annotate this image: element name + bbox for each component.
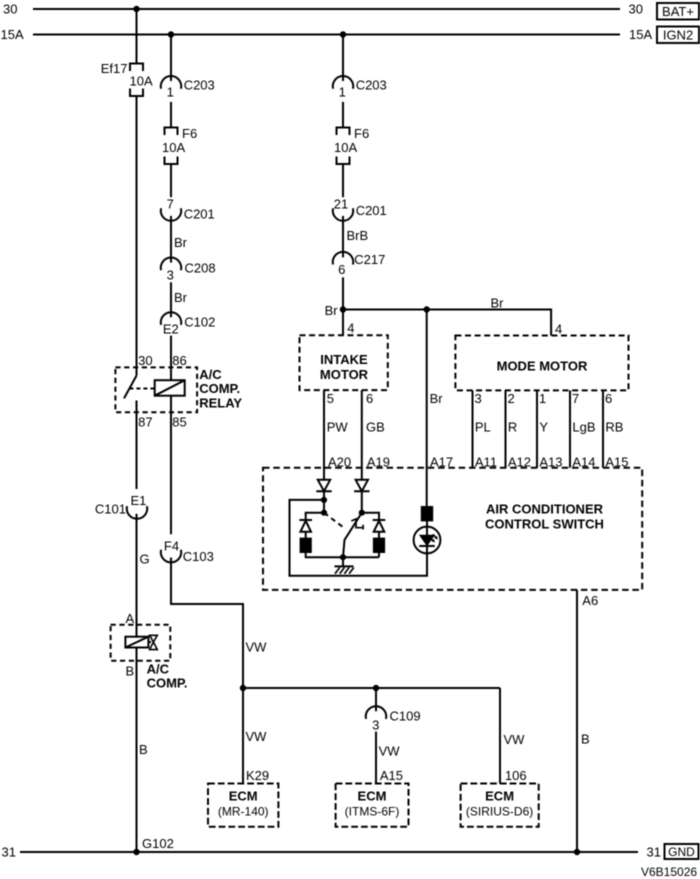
label INTAKE MOTOR pin 4: [347, 321, 354, 336]
svg-text:86: 86: [172, 353, 186, 368]
wire C217 to Br splice node: [342, 277, 344, 309]
wire D2 to switch node: [361, 491, 363, 513]
svg-text:B: B: [581, 732, 590, 747]
svg-text:A20: A20: [328, 455, 351, 470]
label switch pin A20: [328, 455, 351, 470]
wire node to left rail and LED return rail: [290, 500, 428, 576]
wire C101 to A/C comp pin A, colour G: [136, 514, 138, 637]
svg-text:C203: C203: [184, 78, 215, 93]
svg-text:30: 30: [629, 2, 643, 17]
label connector C102: [184, 315, 215, 330]
wire Br splice to A17 branch: [426, 310, 428, 508]
label F6 right rating 10A: [334, 140, 357, 155]
svg-text:30: 30: [138, 353, 152, 368]
switch arm dashed alternate position: [324, 513, 346, 529]
connector C201 pin 21: [333, 208, 353, 221]
svg-text:F4: F4: [164, 539, 179, 554]
svg-text:RELAY: RELAY: [199, 396, 242, 411]
svg-text:CONTROL SWITCH: CONTROL SWITCH: [485, 517, 604, 532]
svg-text:F6: F6: [182, 126, 197, 141]
svg-text:10A: 10A: [334, 140, 357, 155]
junction switch node right: [359, 510, 365, 516]
label wire colour LgB: [572, 420, 595, 435]
svg-text:3: 3: [372, 717, 379, 732]
wire Br splice to INTAKE MOTOR pin 4: [342, 310, 344, 336]
svg-text:21: 21: [334, 197, 348, 212]
label INTAKE MOTOR title: [320, 352, 369, 382]
wire left branch to diode D3: [306, 513, 324, 520]
label switch pin A15: [605, 455, 628, 470]
label MODE MOTOR title: [497, 359, 588, 374]
svg-text:3: 3: [167, 268, 174, 283]
label intake pin 6: [366, 391, 373, 406]
wire C203 to fuse F6 left: [170, 102, 172, 128]
label connector C103: [183, 549, 214, 564]
label switch pin A19: [367, 455, 390, 470]
junction bus30 / Ef17 column: [133, 6, 139, 12]
label C203 right pin 1: [339, 84, 346, 99]
wire INTAKE MOTOR pin 6 to A19 diode: [361, 390, 363, 480]
svg-text:31: 31: [2, 845, 16, 860]
junction Br splice at A17 column: [424, 306, 430, 312]
ECM (SIRIUS-D6) box: [461, 784, 539, 827]
label C201 pin 21: [334, 197, 348, 212]
ground symbol inside switch: [335, 557, 354, 574]
wire C109 to ECM (ITMS-6F) pin A15: [375, 732, 377, 784]
label wire colour VW (C109 drop): [379, 743, 401, 758]
connector C203 pin 1 (left column): [161, 76, 181, 89]
svg-text:Br: Br: [430, 391, 444, 406]
terminal box BAT+: [657, 3, 699, 20]
label wire colour Br (C201-C208): [174, 235, 188, 250]
label fuse Ef17: [101, 61, 128, 76]
label wire colour GB: [366, 420, 385, 435]
svg-text:COMP.: COMP.: [147, 676, 188, 691]
label wire colour PW: [327, 420, 349, 435]
svg-text:Ef17: Ef17: [101, 61, 128, 76]
svg-text:ECM: ECM: [485, 789, 514, 804]
svg-text:BAT+: BAT+: [662, 4, 694, 19]
label A/C COMP. RELAY title: [199, 367, 242, 411]
label C208 pin 3: [167, 268, 174, 283]
svg-text:C201: C201: [184, 206, 215, 221]
svg-text:AIR CONDITIONER: AIR CONDITIONER: [486, 502, 604, 517]
svg-text:106: 106: [505, 768, 527, 783]
label compressor pin B: [126, 664, 135, 679]
wire C103 down and right to ECM feed node, colour VW: [171, 558, 243, 689]
svg-text:C109: C109: [390, 709, 421, 724]
wire INTAKE MOTOR pin 5 to A20 diode: [323, 390, 325, 480]
svg-text:A13: A13: [539, 455, 562, 470]
label wire colour RB: [605, 420, 623, 435]
connector C208 pin 3: [161, 258, 181, 271]
wire MODE MOTOR pin 2 to A12: [505, 390, 507, 467]
fuse Ef17 10A: [130, 64, 143, 97]
svg-text:Br: Br: [174, 290, 188, 305]
ECM (ITMS-6F) box: [336, 784, 409, 827]
svg-text:3: 3: [475, 391, 482, 406]
svg-text:GB: GB: [366, 420, 385, 435]
label net 15A right: [629, 27, 652, 42]
label fuse F6 right: [354, 126, 369, 141]
svg-text:E1: E1: [130, 493, 146, 508]
connector C217 pin 6: [333, 252, 353, 265]
connector C101 pin E1: [127, 506, 147, 519]
label net 30 left: [3, 2, 17, 17]
svg-text:C101: C101: [95, 502, 126, 517]
label relay pin 85: [172, 415, 186, 430]
label Ef17 rating 10A: [130, 74, 153, 89]
wire feed to connector C109, colour VW: [375, 688, 377, 711]
AIR CONDITIONER CONTROL SWITCH box: [263, 468, 642, 590]
wire R2 to ground rail: [378, 552, 380, 557]
A/C COMP clutch coil: [125, 637, 148, 648]
wire MODE MOTOR pin 6 to A15: [602, 390, 604, 467]
wire C102 to relay coil pin 86: [170, 336, 172, 381]
label compressor pin A: [126, 611, 135, 626]
svg-text:A14: A14: [572, 455, 595, 470]
svg-text:COMP.: COMP.: [199, 381, 240, 396]
label BAT+: [662, 4, 694, 19]
label F6 left rating 10A: [162, 140, 185, 155]
label mode pin 7: [572, 391, 579, 406]
label C103 pin F4: [164, 539, 179, 554]
svg-text:2: 2: [508, 391, 515, 406]
label wire colour VW (K29 drop): [246, 729, 268, 744]
connector C103 pin F4: [161, 550, 181, 563]
svg-text:15A: 15A: [1, 27, 24, 42]
wire switch pin A6 to ground bus, colour B: [576, 590, 578, 852]
label net 30 right: [629, 2, 643, 17]
svg-text:RB: RB: [605, 420, 623, 435]
label C217 pin 6: [338, 262, 345, 277]
label net 31 left: [2, 845, 16, 860]
label ECM pin K29: [246, 768, 269, 783]
svg-text:Y: Y: [539, 420, 548, 435]
junction ground bus / compressor return: [133, 849, 139, 855]
label switch pin A17: [430, 455, 453, 470]
svg-text:VW: VW: [246, 640, 268, 655]
fuse F6 10A (right): [337, 128, 350, 165]
svg-text:A19: A19: [367, 455, 390, 470]
wire relay pin 87 to connector C101: [136, 401, 138, 490]
svg-text:A17: A17: [430, 455, 453, 470]
connector C201 pin 7: [161, 208, 181, 221]
svg-text:87: 87: [138, 415, 152, 430]
label ECM (ITMS-6F): [345, 789, 400, 819]
wire feed to ECM (SIRIUS-D6) pin 106, colour VW: [499, 688, 501, 784]
wire R1 to ground rail: [306, 552, 379, 557]
label MODE MOTOR pin 4: [555, 322, 562, 337]
junction Br splice at intake column: [340, 306, 346, 312]
svg-text:BrB: BrB: [347, 228, 369, 243]
svg-text:INTAKE: INTAKE: [320, 352, 368, 367]
svg-text:A/C: A/C: [199, 367, 222, 382]
label C201 pin 7: [167, 197, 174, 212]
label switch pin A14: [572, 455, 595, 470]
switch detent mark: [351, 519, 363, 530]
label relay pin 30: [138, 353, 152, 368]
resistor R2: [374, 539, 384, 552]
connector C109 pin 3: [366, 706, 386, 719]
wire bus15A down to connector C203 right: [342, 35, 344, 82]
svg-text:C201: C201: [356, 203, 387, 218]
svg-text:7: 7: [572, 391, 579, 406]
svg-text:A11: A11: [475, 455, 497, 470]
svg-text:MOTOR: MOTOR: [320, 367, 369, 382]
svg-text:C217: C217: [354, 252, 385, 267]
terminal box GND: [665, 844, 699, 859]
svg-text:10A: 10A: [162, 140, 185, 155]
wire bus net 30: [33, 8, 620, 10]
label connector C203 right: [356, 78, 387, 93]
diode D3: [299, 520, 312, 532]
wire ECM feed line: [243, 687, 500, 689]
svg-text:MODE MOTOR: MODE MOTOR: [497, 359, 588, 374]
svg-text:15A: 15A: [629, 27, 652, 42]
svg-text:B: B: [139, 742, 148, 757]
svg-text:B: B: [126, 664, 135, 679]
junction bus15A / C203 right column: [340, 31, 346, 37]
svg-text:ECM: ECM: [229, 789, 258, 804]
svg-text:IGN2: IGN2: [663, 27, 693, 42]
svg-text:V6B15026: V6B15026: [641, 865, 697, 879]
label connector C217: [354, 252, 385, 267]
svg-text:6: 6: [605, 391, 612, 406]
label wire colour BrB: [347, 228, 369, 243]
relay actuating link (dashed): [129, 388, 154, 390]
svg-text:4: 4: [555, 322, 562, 337]
label C101 pin E1: [130, 493, 146, 508]
label wire colour VW (106 drop): [504, 732, 526, 747]
wire C208 to C102, colour Br: [170, 282, 172, 317]
svg-text:Br: Br: [325, 303, 339, 318]
label ECM (SIRIUS-D6): [466, 789, 533, 819]
label net 31 right: [647, 845, 661, 860]
junction node above switch (left rail tap): [321, 497, 327, 503]
wire MODE MOTOR pin 1 to A13: [536, 390, 538, 467]
label mode pin 6: [605, 391, 612, 406]
label ECM pin 106: [505, 768, 527, 783]
label AIR CONDITIONER CONTROL SWITCH title: [485, 502, 604, 532]
relay switch contact arm (pin 30 to 87): [124, 376, 137, 399]
label connector C101: [95, 502, 126, 517]
label switch pin A11: [475, 455, 497, 470]
resistor R3 on A17 branch: [422, 507, 432, 520]
label mode pin 3: [475, 391, 482, 406]
label intake pin 5: [327, 391, 334, 406]
label net 15A left: [1, 27, 24, 42]
diode D2 on A19 input: [354, 480, 369, 491]
svg-text:F6: F6: [354, 126, 369, 141]
LED indicator lamp: [414, 527, 441, 554]
label wire colour B (compressor return): [139, 742, 148, 757]
label C109 pin 3: [372, 717, 379, 732]
svg-text:Br: Br: [491, 296, 505, 311]
label ECM (MR-140): [218, 789, 269, 819]
svg-text:30: 30: [3, 2, 17, 17]
connector C203 pin 1 (right column): [333, 76, 353, 89]
svg-text:VW: VW: [504, 732, 526, 747]
label relay pin 86: [172, 353, 186, 368]
label ground G102: [142, 836, 174, 851]
label wire colour G: [140, 552, 150, 567]
svg-text:G102: G102: [142, 836, 174, 851]
svg-text:A15: A15: [605, 455, 628, 470]
svg-text:LgB: LgB: [572, 420, 595, 435]
wire Br splice to MODE MOTOR pin 4: [343, 310, 551, 336]
label IGN2: [663, 27, 693, 42]
A/C COMP clutch symbol: [148, 635, 157, 649]
label switch pin A12: [508, 455, 531, 470]
svg-text:R: R: [508, 420, 517, 435]
svg-text:A: A: [126, 611, 135, 626]
wire C203 to fuse F6 right: [342, 102, 344, 128]
svg-text:G: G: [140, 552, 150, 567]
svg-text:A15: A15: [380, 768, 403, 783]
connector C102 pin E2: [161, 312, 181, 325]
svg-text:E2: E2: [163, 322, 179, 337]
junction ECM feed / C109 drop: [373, 685, 379, 691]
junction switch node left: [321, 510, 327, 516]
switch arm closed position: [343, 513, 362, 558]
svg-text:(MR-140): (MR-140): [218, 805, 269, 819]
label wire colour Br at splice left: [325, 303, 339, 318]
label wire colour PL: [475, 420, 491, 435]
svg-text:(SIRIUS-D6): (SIRIUS-D6): [466, 805, 533, 819]
label switch pin A13: [539, 455, 562, 470]
wire A/C comp pin B to ground bus, colour B: [136, 648, 138, 853]
wire F6 to connector C201 pin 21: [342, 164, 344, 197]
svg-text:85: 85: [172, 415, 186, 430]
label drawing number V6B15026: [641, 865, 697, 879]
svg-text:PL: PL: [475, 420, 491, 435]
svg-text:ECM: ECM: [358, 789, 387, 804]
wire D4 to resistor R2: [378, 532, 380, 539]
label wire colour Br at splice right: [491, 296, 505, 311]
wire feed to ECM (MR-140) pin K29, colour VW: [242, 688, 244, 784]
svg-text:C103: C103: [183, 549, 214, 564]
svg-text:(ITMS-6F): (ITMS-6F): [345, 805, 400, 819]
label connector C203 left: [184, 78, 215, 93]
relay A/C COMP. RELAY box: [115, 367, 197, 412]
ECM (MR-140) box: [208, 784, 278, 827]
label connector C109: [390, 709, 421, 724]
wire bus net 15A: [33, 34, 620, 36]
label wire colour VW (C103 segment): [246, 640, 268, 655]
wire relay coil pin 85 to connector C103: [170, 396, 172, 535]
MODE MOTOR box: [455, 336, 628, 391]
svg-text:C102: C102: [184, 315, 215, 330]
label wire colour Br on A17 branch: [430, 391, 444, 406]
wire C201 to C217, colour BrB: [342, 216, 344, 258]
svg-text:GND: GND: [668, 845, 695, 859]
fuse F6 10A (left): [165, 128, 178, 165]
label relay pin 87: [138, 415, 152, 430]
svg-text:10A: 10A: [130, 74, 153, 89]
svg-text:1: 1: [167, 84, 174, 99]
svg-text:VW: VW: [246, 729, 268, 744]
wire fuse Ef17 to relay pin 30: [136, 96, 138, 376]
resistor R1: [301, 539, 311, 552]
wire R3 to LED: [426, 520, 428, 535]
svg-text:6: 6: [338, 262, 345, 277]
label wire colour B (A6 return): [581, 732, 590, 747]
svg-text:6: 6: [366, 391, 373, 406]
svg-text:A12: A12: [508, 455, 531, 470]
svg-text:1: 1: [539, 391, 546, 406]
label connector C201 left: [184, 206, 215, 221]
terminal box IGN2: [657, 27, 699, 44]
svg-text:Br: Br: [174, 235, 188, 250]
relay coil: [155, 380, 185, 396]
wire D3 to resistor R1: [305, 532, 307, 539]
wire right branch to diode D4: [362, 513, 379, 520]
svg-text:C203: C203: [356, 78, 387, 93]
junction switch ground node: [340, 554, 346, 560]
junction ground bus / A6 return: [574, 849, 580, 855]
label fuse F6 left: [182, 126, 197, 141]
svg-text:4: 4: [347, 321, 354, 336]
label wire colour R: [508, 420, 517, 435]
wire bus30 down to fuse Ef17: [136, 9, 138, 64]
A/C COMP compressor clutch box: [111, 625, 171, 661]
wire D1 to switch common node: [323, 491, 325, 513]
label switch pin A6: [582, 593, 598, 608]
svg-text:5: 5: [327, 391, 334, 406]
label connector C201 right: [356, 203, 387, 218]
wire C201 to C208, colour Br: [170, 216, 172, 263]
diode D1 on A20 input: [316, 480, 331, 491]
svg-text:VW: VW: [379, 743, 401, 758]
label GND: [668, 845, 695, 859]
label mode pin 2: [508, 391, 515, 406]
wire MODE MOTOR pin 7 to A14: [569, 390, 571, 467]
svg-text:C208: C208: [185, 261, 216, 276]
junction ECM feed / K29 drop: [240, 685, 246, 691]
label A/C COMP. title: [147, 662, 188, 691]
wire F6 to connector C201 pin 7: [170, 164, 172, 197]
label mode pin 1: [539, 391, 546, 406]
wire bus net 31 (ground bus): [20, 851, 638, 853]
svg-text:31: 31: [647, 845, 661, 860]
wire MODE MOTOR pin 3 to A11: [472, 390, 474, 467]
svg-text:PW: PW: [327, 420, 349, 435]
svg-text:K29: K29: [246, 768, 269, 783]
label ECM pin A15: [380, 768, 403, 783]
svg-text:1: 1: [339, 84, 346, 99]
diode D4: [373, 520, 386, 532]
label C203 left pin 1: [167, 84, 174, 99]
svg-text:7: 7: [167, 197, 174, 212]
INTAKE MOTOR box: [300, 335, 388, 390]
junction bus15A / C203 left column: [168, 31, 174, 37]
label connector C208: [185, 261, 216, 276]
label C102 pin E2: [163, 322, 179, 337]
svg-text:A/C: A/C: [147, 662, 170, 677]
label wire colour Y: [539, 420, 548, 435]
wire bus15A down to connector C203 left: [170, 35, 172, 82]
svg-text:A6: A6: [582, 593, 598, 608]
label wire colour Br (C208-C102): [174, 290, 188, 305]
